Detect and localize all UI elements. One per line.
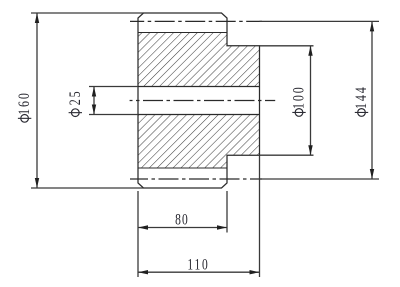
dimension line phi100 <box>308 46 312 155</box>
extension line phi144 top (solid, over pitch line) <box>260 20 380 22</box>
extension line 110 right <box>259 155 261 277</box>
svg-text:100: 100 <box>290 85 308 109</box>
extension line phi25 bottom <box>89 114 138 116</box>
svg-text:110: 110 <box>187 257 209 274</box>
svg-text:160: 160 <box>16 91 34 115</box>
bore line bottom <box>138 114 260 116</box>
label phi144 <box>352 85 370 116</box>
bore line top <box>138 86 260 88</box>
pitch centerline bottom (dash-dot) <box>130 178 262 180</box>
hatched upper section (gear body + hub) <box>138 33 260 87</box>
label phi100 <box>290 85 308 116</box>
extension line phi160 bottom <box>31 187 144 189</box>
gear outline <box>138 13 260 188</box>
extension line 80 left <box>137 191 139 233</box>
svg-text:80: 80 <box>175 212 189 229</box>
extension line phi100 bottom <box>260 154 314 156</box>
bore axis centerline (dash-dot) <box>130 100 276 102</box>
dimension line 80 <box>138 225 227 229</box>
extension line phi144 bottom (solid, over pitch line) <box>260 178 380 180</box>
extension line 110 left <box>137 233 139 278</box>
root line top <box>138 32 227 34</box>
hatched lower section (gear body + hub) <box>138 115 260 169</box>
dimension line phi25 <box>92 87 96 115</box>
extension line phi25 top <box>89 86 138 88</box>
svg-text:25: 25 <box>66 89 84 105</box>
dimension line phi160 <box>35 13 39 188</box>
root line bottom <box>138 167 227 169</box>
dimension line 110 <box>138 270 260 274</box>
label phi25 <box>66 89 84 116</box>
extension line phi160 top <box>31 12 144 14</box>
dimension line phi144 <box>370 21 374 179</box>
pitch centerline top (dash-dot) <box>130 20 262 22</box>
label phi160 <box>16 91 34 122</box>
extension line 80 right <box>226 191 228 233</box>
extension line phi100 top <box>260 45 314 47</box>
svg-text:144: 144 <box>352 85 370 109</box>
